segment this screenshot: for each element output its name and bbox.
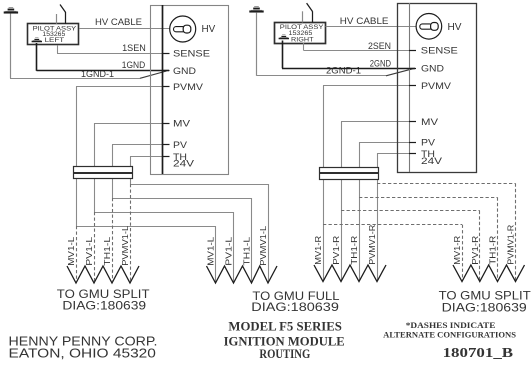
wire TH (left): [130, 156, 163, 158]
pin SENSE (U2): [409, 50, 416, 52]
svg-text:GND: GND: [173, 66, 196, 77]
ground symbol inside pilot assy P2: [279, 35, 289, 39]
dashed alternate wire TH1-R: [359, 197, 498, 199]
arrow group: TO GMU FULL (left module wires): [207, 266, 278, 283]
wire 1GND-1 horizontal: [10, 78, 140, 80]
svg-text:MV1-L: MV1-L: [206, 236, 216, 265]
dashed alternate wire PV1-R: [341, 210, 480, 212]
pin PV (U2): [409, 142, 416, 144]
svg-text:2GND-1: 2GND-1: [326, 65, 361, 75]
cable clamp bar (left): [74, 167, 133, 179]
wire PVMV1-L to full-GMU arrows: [130, 184, 268, 186]
svg-text:PV1-L: PV1-L: [84, 236, 94, 265]
wire 1GND-1 diagonal to GND pin: [140, 71, 167, 78]
svg-text:LEFT: LEFT: [45, 37, 65, 44]
wire 2GND: [282, 41, 284, 69]
svg-text:HV CABLE: HV CABLE: [95, 17, 142, 28]
wire MV (left): [94, 123, 163, 125]
svg-text:MV: MV: [173, 119, 191, 130]
ignition module U1 box (left): [151, 6, 229, 175]
svg-text:HV: HV: [448, 22, 462, 33]
svg-text:1SEN: 1SEN: [122, 43, 146, 53]
pilot assembly P2 box (PILOT ASSY 153265 RIGHT): [275, 23, 326, 44]
wire HV CABLE (left): [80, 28, 171, 30]
svg-text:SENSE: SENSE: [421, 46, 458, 57]
ground symbol inside pilot assy P1: [32, 38, 42, 42]
dashed alternate wires to split-GMU arrows (left): [130, 184, 132, 281]
svg-text:PVMV1-L: PVMV1-L: [258, 225, 268, 265]
svg-text:2GND: 2GND: [370, 58, 391, 68]
wire 1SEN: [57, 46, 59, 54]
wire 1GND: [36, 43, 38, 71]
svg-text:SENSE: SENSE: [173, 48, 210, 59]
wire TH1-L to full-GMU arrows: [112, 198, 252, 200]
pin TH (U2): [409, 153, 416, 155]
svg-text:MV1-L: MV1-L: [66, 236, 76, 265]
pin SENSE (U1): [163, 53, 170, 55]
ignition module U2 box (right): [398, 4, 477, 173]
pin TH (U1): [163, 156, 170, 158]
svg-text:PVMV: PVMV: [173, 82, 204, 93]
HV connector on U2: [416, 13, 442, 39]
svg-text:MV1-R: MV1-R: [313, 236, 323, 265]
svg-text:PVMV: PVMV: [421, 81, 452, 92]
svg-text:PVMV1-R: PVMV1-R: [367, 225, 377, 265]
svg-text:HV CABLE: HV CABLE: [340, 16, 389, 27]
cable clamp bar (right): [320, 168, 380, 180]
svg-text:ROUTING: ROUTING: [259, 347, 310, 361]
arrow group: TO GMU SPLIT (right): [453, 265, 525, 282]
wire 2GND-1 diagonal to GND pin: [386, 68, 415, 76]
pilot assembly P1 box (PILOT ASSY 153265 LEFT): [28, 24, 79, 45]
svg-text:DIAG:180639: DIAG:180639: [62, 299, 146, 313]
dashed alternate wire MV1-R: [323, 224, 462, 226]
pilot P2 electrode pins: [302, 11, 304, 22]
wire PVMV (right): [323, 85, 409, 87]
svg-text:180701_B: 180701_B: [443, 346, 513, 361]
svg-text:TH1-R: TH1-R: [488, 236, 498, 265]
svg-text:MV: MV: [421, 117, 439, 128]
svg-text:HV: HV: [202, 24, 216, 35]
svg-text:MODEL F5 SERIES: MODEL F5 SERIES: [228, 320, 342, 334]
arrow group: TO GMU SPLIT (left): [67, 266, 139, 283]
pin PVMV (U1): [163, 86, 170, 88]
svg-text:24V: 24V: [173, 159, 195, 170]
svg-text:PV1-R: PV1-R: [331, 236, 341, 265]
svg-text:1GND: 1GND: [122, 60, 145, 70]
wire MV (right): [341, 121, 409, 123]
pin MV (U2): [409, 121, 416, 123]
wire MV1-L to full-GMU arrows: [76, 226, 216, 228]
ground (1GND-1 net, left): [4, 8, 18, 79]
svg-text:PVMV1-L: PVMV1-L: [120, 225, 130, 265]
svg-text:ALTERNATE CONFIGURATIONS: ALTERNATE CONFIGURATIONS: [383, 329, 516, 339]
svg-text:TH1-R: TH1-R: [349, 236, 359, 265]
ground (2GND-1 net, right): [249, 7, 263, 76]
wire PVMV (left): [76, 86, 163, 88]
wire 2GND-1 horizontal: [257, 75, 387, 77]
pin GND (U2): [409, 68, 416, 70]
pin PVMV (U2): [409, 85, 416, 87]
pin GND (U1): [163, 70, 170, 72]
svg-text:TH1-L: TH1-L: [242, 236, 252, 265]
wire HV CABLE (right): [326, 26, 417, 28]
dashed alternate wire PVMV1-R: [377, 183, 516, 185]
svg-text:PV1-L: PV1-L: [224, 236, 234, 265]
wire PV1-L to full-GMU arrows: [94, 212, 234, 214]
svg-text:PV: PV: [173, 140, 188, 151]
wire PV (right): [359, 142, 409, 144]
svg-text:24V: 24V: [421, 156, 443, 167]
HV connector on U1: [170, 16, 196, 42]
arrow group: TO GMU FULL (right module wires): [314, 265, 386, 282]
svg-text:PV: PV: [421, 138, 436, 149]
pin PV (U1): [163, 144, 170, 146]
svg-text:TH1-L: TH1-L: [102, 236, 112, 265]
svg-text:MV1-R: MV1-R: [452, 236, 462, 265]
svg-text:RIGHT: RIGHT: [291, 36, 314, 43]
svg-text:DIAG:180639: DIAG:180639: [251, 300, 339, 314]
pilot P1 electrode pins: [56, 14, 58, 24]
wire PV (left): [112, 144, 163, 146]
wire 2SEN: [303, 43, 305, 50]
svg-text:PV1-R: PV1-R: [470, 236, 480, 265]
svg-text:PVMV1-R: PVMV1-R: [506, 225, 516, 265]
svg-text:EATON, OHIO 45320: EATON, OHIO 45320: [9, 347, 156, 361]
svg-text:2SEN: 2SEN: [368, 41, 391, 51]
svg-text:DIAG:180639: DIAG:180639: [442, 301, 527, 315]
wire TH (right): [377, 153, 409, 155]
svg-text:GND: GND: [421, 64, 444, 75]
pin MV (U1): [163, 123, 170, 125]
